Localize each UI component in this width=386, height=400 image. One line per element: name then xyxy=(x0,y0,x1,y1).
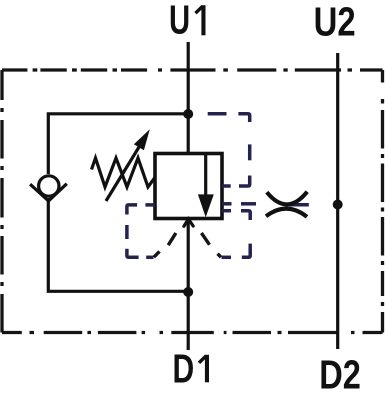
wire check-valve branch (top horizontal, left vertical, bottom horizontal) xyxy=(48,114,188,291)
enclosure dash-dot border: right edge xyxy=(381,70,384,333)
wire U2-D2 vertical line xyxy=(336,53,339,349)
enclosure dash-dot border: top edge xyxy=(2,68,383,71)
svg-text:D: D xyxy=(172,345,194,391)
drain path right (dashed) xyxy=(222,211,251,258)
up arrow into valve bottom (open barbs) xyxy=(184,219,193,226)
check valve CV1 (ball in seat) xyxy=(30,176,67,201)
adjustment arrow across spring xyxy=(106,147,139,201)
valve body box V1 xyxy=(155,154,222,219)
node junction dot on D2 line (pilot tap) xyxy=(333,200,343,210)
drain path left (dashed) xyxy=(127,205,155,257)
drain diagonal left (black dashes) xyxy=(154,233,176,257)
svg-text:U2: U2 xyxy=(314,0,356,45)
valve internal flow path with down arrow xyxy=(204,154,207,199)
svg-text:U: U xyxy=(169,0,190,43)
enclosure dash-dot border: left edge xyxy=(0,70,3,333)
wire U1 down to valve top xyxy=(187,42,190,154)
enclosure dash-dot border: bottom edge xyxy=(2,331,383,334)
node junction dot top (U1 pilot tap) xyxy=(183,109,193,119)
node junction dot bottom (D1 branch) xyxy=(183,287,193,297)
pilot line to orifice (dashed) xyxy=(222,204,309,205)
spring (zigzag) xyxy=(92,158,156,187)
orifice (restrictor) arcs xyxy=(266,192,307,217)
drain diagonal right (black dashes) xyxy=(201,233,221,257)
pilot line upper (dashed, from U1 tap to valve right top) xyxy=(208,114,250,186)
svg-text:D2: D2 xyxy=(319,352,361,398)
wire valve bottom down to D1 xyxy=(187,219,190,350)
